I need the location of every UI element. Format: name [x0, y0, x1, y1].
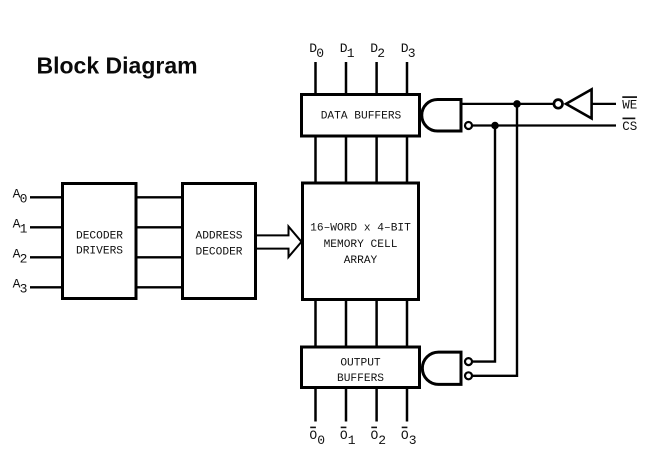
svg-text:WE: WE	[622, 98, 637, 112]
svg-text:3: 3	[408, 46, 416, 61]
wire databuffers-to-memory 2	[345, 136, 348, 184]
svg-text:O: O	[340, 428, 348, 443]
wire memory-to-outputbuffers 2	[345, 300, 348, 349]
wire CS rail	[472, 124, 616, 126]
wire decoder-to-address 4	[136, 286, 183, 288]
svg-text:CS: CS	[622, 120, 637, 134]
svg-text:O: O	[309, 428, 317, 443]
wire O0	[314, 388, 317, 422]
svg-text:2: 2	[377, 46, 385, 61]
node A2	[13, 247, 28, 267]
wire WE input	[592, 103, 617, 105]
wire WE-inverted feedback (down to G2 lower input)	[473, 104, 518, 376]
wire A3 input	[30, 286, 62, 288]
svg-text:DRIVERS: DRIVERS	[76, 246, 123, 258]
junction on WE rail	[513, 100, 521, 108]
node D3	[401, 41, 416, 61]
wire databuffers-to-memory 4	[406, 136, 409, 184]
node O0 (active low)	[309, 427, 325, 448]
gate G2 output-enable AND (mirrored, bubbles on both inputs)	[422, 352, 461, 384]
svg-text:OUTPUT: OUTPUT	[340, 358, 381, 370]
gate G2 lower input bubble	[465, 372, 472, 379]
node WE (active low)	[622, 97, 637, 112]
wire A2 input	[30, 256, 62, 258]
wire A1 input	[30, 226, 62, 228]
wire databuffers-to-memory 1	[314, 136, 317, 184]
block OUTPUT BUFFERS	[302, 347, 420, 388]
gate G1 write-enable AND (mirrored, bubble on lower input)	[422, 100, 461, 132]
node D1	[340, 41, 355, 61]
svg-text:2: 2	[20, 251, 28, 266]
block 16-WORD x 4-BIT MEMORY CELL ARRAY	[303, 183, 419, 300]
gate G2 upper input bubble	[465, 358, 472, 365]
svg-text:O: O	[371, 428, 379, 443]
wire memory-to-outputbuffers 1	[314, 300, 317, 349]
svg-text:16–WORD x 4–BIT: 16–WORD x 4–BIT	[310, 223, 411, 235]
svg-text:MEMORY CELL: MEMORY CELL	[324, 239, 398, 251]
wire A0 input	[30, 196, 62, 198]
wire decoder-to-address 1	[136, 196, 183, 198]
wire CS feedback (down to G2 upper input)	[473, 126, 496, 362]
svg-text:DECODER: DECODER	[196, 247, 243, 259]
svg-text:3: 3	[409, 433, 417, 448]
block arrow address-to-memory	[257, 227, 302, 258]
svg-text:1: 1	[348, 433, 356, 448]
svg-text:0: 0	[20, 191, 28, 206]
wire O3	[406, 388, 409, 422]
svg-text:1: 1	[20, 221, 28, 236]
gate G1 input bubble	[465, 122, 472, 129]
node CS (active low)	[622, 118, 637, 133]
svg-text:DECODER: DECODER	[76, 230, 123, 242]
wire memory-to-outputbuffers 3	[375, 300, 378, 349]
block DECODER DRIVERS	[63, 184, 137, 299]
block DATA BUFFERS	[302, 95, 420, 137]
svg-text:0: 0	[317, 433, 325, 448]
inverter U1	[566, 89, 592, 118]
node O2 (active low)	[371, 427, 387, 448]
svg-text:ADDRESS: ADDRESS	[196, 231, 243, 243]
wire O2	[375, 388, 378, 422]
junction on CS rail	[491, 122, 499, 130]
wire decoder-to-address 3	[136, 256, 183, 258]
svg-text:Block Diagram: Block Diagram	[37, 53, 198, 79]
svg-text:DATA BUFFERS: DATA BUFFERS	[321, 111, 402, 123]
svg-text:1: 1	[347, 46, 355, 61]
wire D0	[314, 62, 317, 94]
node D2	[370, 41, 385, 61]
wire O1	[345, 388, 348, 422]
node A3	[13, 277, 28, 297]
svg-text:3: 3	[20, 281, 28, 296]
svg-text:0: 0	[316, 46, 324, 61]
wire memory-to-outputbuffers 4	[406, 300, 409, 349]
svg-text:ARRAY: ARRAY	[344, 255, 378, 267]
wire D1	[345, 62, 348, 94]
node O3 (active low)	[401, 427, 417, 448]
node A0	[13, 187, 28, 207]
wire decoder-to-address 2	[136, 226, 183, 228]
svg-text:O: O	[401, 428, 409, 443]
node A1	[13, 217, 28, 237]
wire D2	[375, 62, 378, 94]
block ADDRESS DECODER	[183, 184, 256, 299]
wire WE rail (gate to inverter)	[461, 103, 554, 105]
wire D3	[406, 62, 409, 94]
inverter U1 bubble	[554, 100, 563, 109]
node O1 (active low)	[340, 427, 356, 448]
node D0	[309, 41, 324, 61]
svg-text:BUFFERS: BUFFERS	[337, 373, 384, 385]
wire databuffers-to-memory 3	[375, 136, 378, 184]
svg-text:2: 2	[378, 433, 386, 448]
